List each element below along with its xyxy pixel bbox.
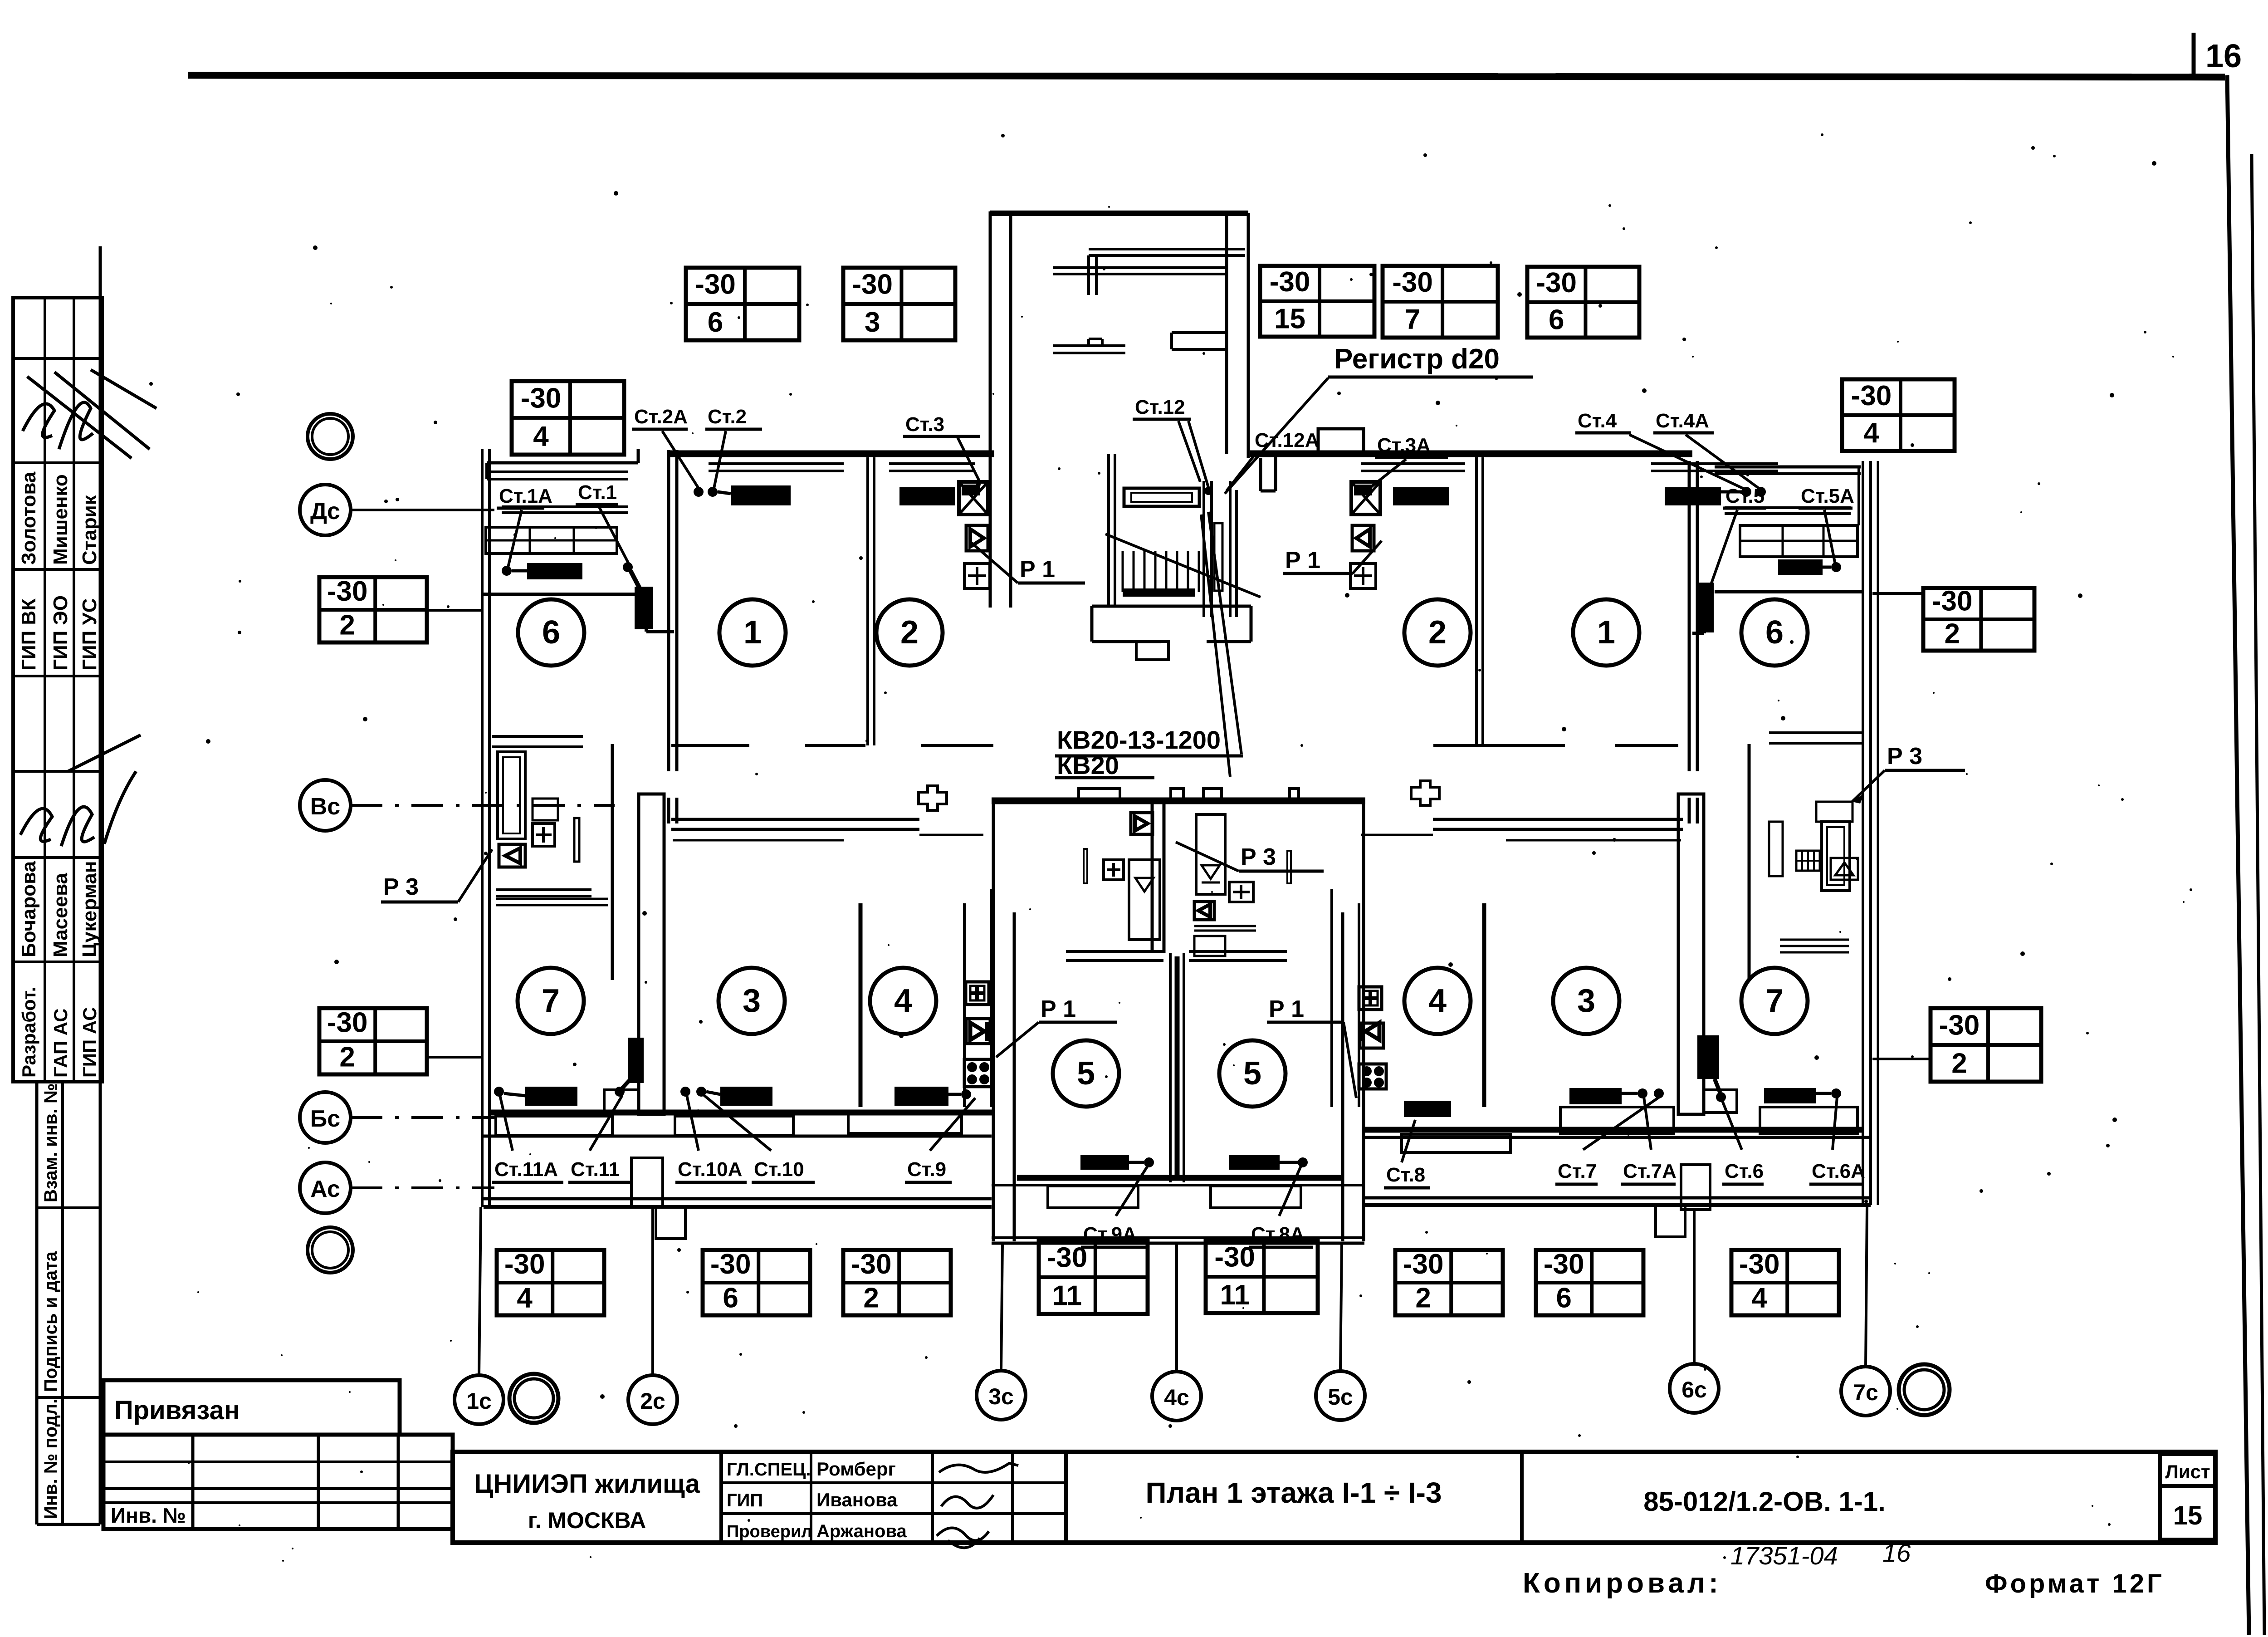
wall north upper-right	[1250, 451, 1692, 457]
branch dot Ст.11	[615, 1087, 625, 1097]
teeth on center top wall	[1079, 789, 1120, 801]
svg-text:Инв. № подл.: Инв. № подл.	[41, 1399, 61, 1519]
left strip roles ГИП ВК ГИП ЭО ГИП УС	[18, 595, 101, 671]
branch dot room5 left	[1144, 1157, 1154, 1167]
washbasin left	[533, 799, 558, 820]
svg-text:Ст.10: Ст.10	[754, 1158, 804, 1181]
riser blob Ст.11	[628, 1038, 644, 1083]
kitchen left plus box	[966, 982, 989, 1005]
svg-text:Вс: Вс	[310, 794, 340, 820]
branch dots room3R	[1637, 1088, 1647, 1098]
svg-text:-30: -30	[1403, 1249, 1444, 1280]
left strip names Золотова Мишенко Старик	[18, 471, 101, 565]
door sill lines rooms 1-2	[671, 744, 749, 747]
table -30/2 T9	[319, 1007, 427, 1074]
svg-text:2: 2	[1428, 614, 1447, 651]
axis circle Вс	[300, 780, 351, 831]
svg-text:Р 1: Р 1	[1041, 996, 1076, 1022]
valve box left bath	[499, 844, 525, 867]
sill room1R	[1651, 462, 1778, 465]
svg-text:Ст.10А: Ст.10А	[678, 1158, 742, 1181]
svg-text:-30: -30	[1270, 266, 1310, 298]
room circle 5	[1219, 1040, 1286, 1107]
room circle 6	[1741, 599, 1808, 666]
kitchen square X room2R	[1351, 482, 1380, 515]
svg-text:-30: -30	[710, 1249, 751, 1280]
center bath right: shelf	[1194, 925, 1256, 927]
wall center-block right	[1341, 912, 1344, 1241]
svg-text:16: 16	[1882, 1539, 1911, 1567]
riser blob Ст.6top	[1699, 583, 1714, 632]
svg-text:-30: -30	[1392, 267, 1433, 298]
leader Ст.11А	[500, 1095, 513, 1151]
svg-text:Регистр d20: Регистр d20	[1334, 343, 1500, 375]
bathtub left	[498, 752, 525, 839]
tick left bath	[574, 818, 579, 862]
bathroom left top rail	[492, 735, 583, 738]
svg-text:-30: -30	[1739, 1249, 1780, 1280]
svg-text:Бочарова: Бочарова	[18, 861, 40, 957]
wall partition 4R|3R	[1482, 903, 1486, 1107]
sill box room5 left	[1048, 1186, 1138, 1208]
left strip roles Разработ ГАП АС ГИП АС	[18, 987, 100, 1078]
room circle 1	[1573, 599, 1639, 666]
left strip signatures scribble 1	[23, 370, 156, 458]
leader Ст.7А	[1644, 1097, 1651, 1150]
riser blob Ст.1	[635, 587, 653, 629]
elevator wall	[1202, 481, 1205, 617]
svg-text:-30: -30	[327, 576, 368, 607]
radiator room5 right	[1229, 1155, 1280, 1170]
svg-text:1: 1	[743, 614, 762, 651]
wall partition 1|2	[866, 457, 869, 745]
window boxes room6R	[1740, 525, 1857, 557]
table -30/6 T1	[686, 268, 799, 340]
middle table grid	[721, 1452, 1066, 1543]
wall right outer	[1862, 461, 1864, 1205]
leader Ст.10	[704, 1095, 771, 1151]
leader Ст.6	[1722, 1100, 1742, 1150]
svg-text:Дс: Дс	[310, 498, 340, 524]
wall corridor right	[1433, 818, 1683, 821]
radiator room7R	[1764, 1088, 1816, 1103]
register dot	[1204, 487, 1212, 495]
table -30/4 T12	[497, 1249, 604, 1315]
axis line Дс	[351, 509, 494, 511]
svg-text:ГЛ.СПЕЦ.: ГЛ.СПЕЦ.	[727, 1460, 811, 1480]
svg-text:КВ20: КВ20	[1057, 751, 1119, 779]
svg-text:Ст.6А: Ст.6А	[1812, 1160, 1865, 1182]
svg-text:2: 2	[339, 610, 355, 641]
svg-text:2: 2	[1951, 1048, 1967, 1079]
svg-text:4: 4	[533, 421, 549, 452]
svg-text:-30: -30	[1536, 267, 1577, 299]
bay top-left outline	[487, 461, 638, 465]
svg-text:Ст.4: Ст.4	[1578, 410, 1617, 432]
leader Ст.11	[590, 1095, 622, 1151]
branch dot room5 right	[1298, 1157, 1308, 1167]
axis line 4с	[1175, 1243, 1178, 1372]
center bath right: tub	[1196, 814, 1225, 894]
svg-text:Аржанова: Аржанова	[816, 1521, 907, 1541]
svg-text:3: 3	[1577, 983, 1595, 1019]
riser pair right of stair	[1229, 481, 1232, 617]
axis circle 4с	[1152, 1372, 1201, 1421]
table -30/6 T5	[1527, 267, 1639, 338]
svg-text:17351-04: 17351-04	[1730, 1541, 1838, 1570]
axis circle 7с	[1841, 1367, 1890, 1416]
title block frame	[453, 1452, 2215, 1543]
radiator room3	[720, 1087, 772, 1106]
axis line 6с	[1693, 1210, 1696, 1364]
svg-text:15: 15	[2173, 1501, 2203, 1530]
svg-text:Ст.3: Ст.3	[905, 413, 944, 436]
svg-text:7: 7	[1765, 983, 1784, 1019]
svg-text:4: 4	[1863, 417, 1879, 449]
center bath left: strip	[1084, 849, 1087, 883]
stair lower left wall	[1107, 454, 1110, 608]
wall room6R top	[1715, 590, 1862, 593]
center bath right: valve box	[1194, 902, 1214, 920]
sheet right border	[2227, 75, 2249, 1635]
svg-text:Бс: Бс	[310, 1106, 340, 1132]
sill box room5 right	[1211, 1186, 1301, 1208]
branch dot riser Ст.1	[623, 562, 633, 572]
center bath left: tub	[1129, 860, 1160, 940]
svg-text:7с: 7с	[1853, 1380, 1878, 1405]
axis line Ас	[351, 1186, 494, 1189]
right bath: small rects left	[1769, 822, 1783, 876]
svg-text:Ст.7: Ст.7	[1558, 1160, 1597, 1182]
svg-text:-30: -30	[1939, 1010, 1980, 1041]
branch dots room1R	[1741, 487, 1751, 497]
sill box room3	[675, 1116, 793, 1135]
leader Ст.5А	[1824, 510, 1835, 564]
svg-text:-30: -30	[327, 1007, 368, 1039]
window band left wing	[484, 1135, 992, 1138]
svg-text:2: 2	[1944, 618, 1960, 649]
svg-text:4: 4	[1751, 1283, 1767, 1314]
leader Ст.4А	[1686, 435, 1760, 489]
branch dot Ст.7	[1716, 1092, 1726, 1102]
axis line 2с	[651, 1208, 654, 1375]
leader Ст.12А	[1227, 454, 1256, 491]
table -30/7 T4	[1383, 266, 1498, 338]
leader Ст.4	[1629, 435, 1745, 489]
svg-text:-30: -30	[1932, 586, 1973, 617]
svg-text:Привязан: Привязан	[114, 1396, 240, 1425]
kitchen col right walls	[1358, 903, 1360, 1107]
svg-text:Проверил: Проверил	[727, 1522, 812, 1541]
stair treads	[1123, 551, 1199, 592]
leader Ст.8А	[1279, 1166, 1301, 1216]
wall partition 6|1	[667, 450, 670, 771]
radiator room6R	[1778, 559, 1823, 575]
radiator room6	[527, 563, 582, 579]
left strip names Бочарова Масеева Цукерман	[18, 861, 101, 957]
svg-text:Иванова: Иванова	[816, 1489, 898, 1510]
svg-text:г. МОСКВА: г. МОСКВА	[528, 1508, 646, 1533]
riser blob Ст.7	[1697, 1035, 1719, 1079]
right bath: tub	[1822, 822, 1850, 891]
svg-text:16: 16	[2205, 38, 2242, 74]
svg-text:11: 11	[1220, 1279, 1250, 1311]
svg-text:Ст.5А: Ст.5А	[1801, 485, 1854, 507]
leader Ст.12 a	[1188, 421, 1208, 487]
porch block at 6с	[1656, 1205, 1685, 1237]
svg-text:Масеева: Масеева	[49, 872, 72, 957]
svg-text:5: 5	[1077, 1055, 1095, 1092]
table -30/4 T7	[512, 381, 624, 455]
axis circle Дс	[300, 485, 351, 535]
room circle 3	[719, 968, 785, 1034]
svg-text:-30: -30	[852, 269, 893, 300]
window band center	[992, 1184, 1364, 1186]
bay right lower rail	[1725, 506, 1851, 509]
svg-text:3: 3	[865, 307, 880, 338]
window boxes room6	[486, 527, 617, 554]
wall center-block left	[992, 801, 995, 1241]
table -30/4 T19	[1731, 1249, 1839, 1315]
axis line 7с	[1866, 1207, 1867, 1367]
center bath left: valve box	[1131, 813, 1153, 834]
room circle 5	[1053, 1040, 1119, 1107]
svg-text:Р 3: Р 3	[383, 874, 419, 900]
svg-text:1с: 1с	[466, 1388, 492, 1414]
page number tick	[2192, 33, 2196, 78]
svg-text:4с: 4с	[1164, 1385, 1189, 1410]
table -30/2 T17	[1395, 1249, 1503, 1315]
branch dot room7	[494, 1087, 504, 1097]
svg-text:ЦНИИЭП жилища: ЦНИИЭП жилища	[474, 1469, 700, 1499]
svg-text:5: 5	[1243, 1055, 1261, 1092]
axis circle Ас	[300, 1162, 351, 1213]
svg-text:2: 2	[900, 614, 919, 651]
branch dots room1	[694, 487, 704, 497]
sheet top border line	[188, 75, 2225, 77]
table -30/11 T16	[1206, 1240, 1318, 1313]
svg-text:Ромберг: Ромберг	[816, 1458, 896, 1480]
table -30/4 T6	[1842, 379, 1955, 451]
leader Ст.1	[599, 506, 630, 565]
svg-text:6: 6	[542, 614, 560, 651]
svg-text:2с: 2с	[640, 1388, 665, 1414]
scan speckles	[149, 133, 2192, 1562]
leader Ст.7	[1583, 1097, 1659, 1150]
svg-text:Ст.11: Ст.11	[571, 1158, 620, 1181]
svg-text:4: 4	[1428, 983, 1447, 1019]
handwritten 17351-04 16	[1730, 1539, 1911, 1570]
wall partition 3|4	[859, 903, 863, 1107]
svg-text:Р 1: Р 1	[1285, 547, 1320, 573]
plus box room2	[964, 564, 990, 588]
wall center top	[992, 798, 1365, 804]
wall bottom left wing	[489, 1110, 993, 1116]
radiator room3R	[1569, 1088, 1622, 1104]
leader КВ20 b	[1201, 515, 1230, 777]
bay top-right outline	[1715, 466, 1861, 469]
leader Ст.10А	[687, 1095, 699, 1151]
door sill lines rooms 1R-2R	[1501, 744, 1565, 747]
branch dot room4	[961, 1089, 971, 1099]
center bath right: box	[1194, 936, 1225, 956]
svg-text:Мишенко: Мишенко	[49, 474, 72, 565]
wall partition 7|3	[639, 794, 664, 1114]
leader Ст.1А	[508, 510, 522, 567]
svg-text:Ст.9: Ст.9	[907, 1158, 946, 1181]
branch dot room6R	[1831, 562, 1841, 572]
svg-text:Ст.4А: Ст.4А	[1656, 410, 1709, 432]
kitchen col left walls	[963, 903, 966, 1107]
leader Ст.8	[1402, 1120, 1415, 1162]
axis line 5с	[1340, 1243, 1342, 1371]
svg-text:6с: 6с	[1681, 1377, 1707, 1402]
sill box room7R	[1760, 1107, 1857, 1133]
center bath left: plus box	[1104, 860, 1124, 880]
axis circle 2с	[628, 1375, 677, 1424]
svg-text:7: 7	[542, 983, 560, 1019]
riser box at 6с	[1681, 1165, 1710, 1210]
room circle 7	[518, 968, 584, 1034]
center bath right: plus box	[1229, 882, 1253, 902]
center bath stub walls	[1151, 801, 1154, 953]
upper rooms south wall extra	[921, 744, 993, 747]
table -30/2 T8	[319, 576, 427, 642]
svg-text:ГИП АС: ГИП АС	[79, 1007, 100, 1078]
leader Ст.6А	[1833, 1097, 1837, 1150]
wall party 5|5	[1169, 953, 1172, 1182]
sill box room4	[848, 1114, 962, 1133]
wall corridor left	[671, 818, 919, 821]
kitchen right valve box	[1360, 1023, 1383, 1048]
svg-text:3: 3	[743, 983, 761, 1019]
elevator shaft rect	[1214, 523, 1222, 591]
svg-text:Ст.2А: Ст.2А	[634, 406, 688, 428]
leader Ст.3А	[1367, 459, 1406, 490]
Привязан box	[103, 1380, 400, 1435]
vestibule walls	[1092, 605, 1251, 608]
radiator room4R	[1404, 1101, 1451, 1117]
room circle 6	[518, 599, 584, 666]
svg-text:Ас: Ас	[310, 1176, 340, 1202]
wall partition 6R|1R	[1688, 461, 1691, 771]
svg-text:Формат 12Г: Формат 12Г	[1985, 1569, 2165, 1598]
svg-text:2: 2	[339, 1041, 355, 1073]
svg-text:ГАП АС: ГАП АС	[50, 1009, 71, 1078]
vestibule step	[1136, 642, 1168, 660]
table -30/15 T3	[1260, 266, 1374, 337]
axis circle Бс	[300, 1092, 351, 1143]
room circle 4	[1404, 968, 1471, 1034]
shelf lines left bath	[496, 888, 591, 891]
sheet number 15	[2160, 1486, 2215, 1539]
link line T8 to wall	[427, 609, 484, 612]
axis circle 3с	[977, 1371, 1026, 1420]
right bath: grid box	[1796, 851, 1820, 871]
svg-text:Инв. №: Инв. №	[111, 1504, 186, 1527]
sill room1	[709, 462, 844, 465]
table -30/3 T2	[843, 268, 955, 340]
svg-text:3с: 3с	[988, 1384, 1014, 1409]
left requisites table	[13, 298, 102, 1082]
kitchen left valve box	[966, 1019, 990, 1044]
svg-text:Ст.2: Ст.2	[708, 406, 747, 428]
svg-text:КВ20-13-1200: КВ20-13-1200	[1057, 725, 1221, 754]
wall room6 top	[481, 593, 635, 596]
kitchen right x box	[1359, 1064, 1386, 1089]
svg-text:Старик: Старик	[78, 495, 101, 565]
room circle 3	[1553, 968, 1619, 1034]
table -30/2 T14	[843, 1249, 951, 1315]
room circle 2	[876, 599, 943, 666]
double ring near 1с	[509, 1374, 558, 1423]
leader Ст.9	[930, 1098, 975, 1151]
svg-text:ГИП: ГИП	[727, 1490, 763, 1510]
svg-text:Цукерман: Цукерман	[78, 861, 101, 957]
link line T10 to wall	[1872, 592, 1923, 595]
double ring bottom-left	[308, 1227, 353, 1273]
leader Ст.9А	[1116, 1166, 1148, 1216]
double ring near 7с	[1899, 1364, 1950, 1415]
window band right wing	[1364, 1136, 1871, 1139]
svg-text:4: 4	[517, 1283, 533, 1314]
wall partition 3R|7R	[1678, 794, 1704, 1114]
room circle 2	[1404, 599, 1471, 666]
kitchen square X room2	[959, 482, 988, 515]
leader Ст.12 b	[1178, 421, 1200, 482]
wall hall lines rooms5	[1066, 950, 1163, 953]
svg-text:1: 1	[1597, 614, 1615, 651]
axis circle 6с	[1670, 1364, 1719, 1413]
svg-text:Ст.8А: Ст.8А	[1251, 1223, 1305, 1245]
svg-text:6: 6	[1549, 304, 1564, 335]
leader Ст.2А	[662, 431, 699, 488]
radiator room2	[899, 487, 955, 505]
svg-text:4: 4	[894, 983, 912, 1019]
wall partition 1R|2R	[1475, 457, 1478, 745]
wall center bottom	[1017, 1175, 1341, 1181]
Лист box	[2160, 1454, 2215, 1486]
svg-text:План 1 этажа I-1 ÷ I-3: План 1 этажа I-1 ÷ I-3	[1145, 1476, 1442, 1509]
bathroom right top rail	[1769, 731, 1862, 734]
svg-text:Ст.7А: Ст.7А	[1623, 1160, 1677, 1182]
leader Ст.5	[1711, 510, 1737, 584]
svg-text:Взам. инв. №: Взам. инв. №	[41, 1083, 61, 1202]
table -30/2 T11	[1931, 1008, 2041, 1082]
right bath: box1	[1816, 802, 1853, 822]
wall bottom right wing	[1364, 1127, 1864, 1133]
svg-text:Ст.1А: Ст.1А	[499, 485, 552, 507]
svg-text:-30: -30	[695, 269, 736, 300]
room circle 4	[870, 968, 936, 1034]
svg-text:Ст.9А: Ст.9А	[1083, 1223, 1137, 1245]
right bath: shelf	[1780, 939, 1849, 941]
svg-text:-30: -30	[521, 382, 562, 414]
riser box at 2с	[631, 1158, 663, 1207]
svg-text:Р 1: Р 1	[1269, 996, 1304, 1022]
table -30/2 T10	[1923, 586, 2034, 651]
left strip vertical border	[99, 246, 102, 1524]
left strip signatures scribble 2	[20, 735, 141, 846]
svg-text:6: 6	[708, 307, 723, 338]
axis circle 5с	[1316, 1371, 1365, 1420]
radiator room1	[731, 485, 791, 505]
room circle 1	[719, 599, 786, 666]
lower-left sub table	[103, 1435, 453, 1529]
shaft landing line 2	[1053, 266, 1225, 269]
room circle 7	[1741, 968, 1808, 1034]
svg-text:Ст.11А: Ст.11А	[494, 1158, 558, 1181]
